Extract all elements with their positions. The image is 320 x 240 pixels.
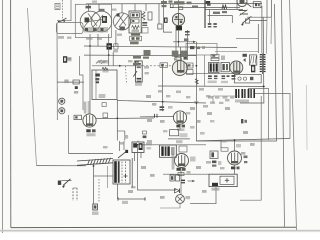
component marks in loop box	[95, 74, 105, 99]
wire x261.9 to T3	[261, 17, 263, 53]
transformer T5 output box	[113, 160, 130, 184]
label box LINE CORD	[55, 4, 60, 10]
component marks right of V9	[244, 156, 248, 164]
wire x137.5 down	[138, 145, 177, 190]
wire x124.8	[117, 131, 125, 141]
wire grid V6	[140, 116, 174, 118]
tube V1 inner grid marks	[85, 9, 108, 23]
component cluster right of V5	[243, 54, 257, 73]
wire x115.9	[115, 30, 117, 46]
volume control R5	[133, 61, 142, 82]
wire dashed line-cord	[61, 0, 63, 22]
box above T2	[186, 44, 217, 56]
component marks below V5	[232, 75, 236, 80]
capacitor C2 below T1	[130, 34, 142, 41]
label text top V3	[174, 1, 192, 4]
label text bottom mid	[128, 166, 207, 199]
wire K1 to T5	[135, 153, 142, 162]
label text top near V1	[92, 1, 117, 11]
wire left y82	[57, 81, 84, 83]
arrow bus y66	[119, 65, 196, 67]
wire top bus y9.4	[205, 8, 243, 10]
component box B7	[221, 62, 229, 71]
transformer T4 IF can bottom	[160, 145, 177, 157]
capacitor C3 right column	[146, 4, 152, 20]
switch S1 on-off	[58, 18, 67, 22]
label rotated text above V7	[84, 101, 90, 114]
capacitor mark right x241	[241, 119, 247, 123]
component box above V3	[170, 4, 183, 9]
tube V4 electrodes	[177, 61, 184, 73]
wire bus y55	[84, 54, 196, 57]
capacitor C6 x115	[114, 44, 118, 49]
wire x261 down	[240, 96, 261, 200]
resistor R1 column right of T1	[142, 12, 148, 34]
wire top bus y7.5	[170, 6, 240, 8]
label text mid right area	[199, 88, 230, 108]
transformer T2 IF hatched	[209, 62, 219, 72]
wire box y15.6	[208, 16, 233, 23]
resistor R10 right of V7	[102, 103, 108, 118]
component cluster below V8	[177, 157, 196, 171]
wire x162.7 long	[161, 66, 163, 103]
component marks below R11	[212, 161, 221, 167]
wire x221	[221, 140, 235, 151]
wire x68.6	[68, 115, 70, 154]
border frame bottom	[11, 226, 297, 228]
wire left long vertical	[28, 8, 37, 166]
tube V9 electrodes	[231, 153, 238, 164]
wire x90	[89, 34, 91, 114]
enclosure box V1 converter	[75, 4, 111, 37]
capacitor C1 trimmer above V1	[86, 6, 92, 9]
label rotated text left of V8	[172, 154, 175, 170]
scan left edge line	[2, 0, 4, 233]
wire T5 outer wall	[108, 158, 133, 188]
wire y203.5	[190, 187, 216, 204]
tube V2 IF amp envelope	[113, 13, 130, 30]
wire bus y140	[196, 139, 290, 141]
component blob below V1	[107, 43, 112, 49]
component box top right corner	[253, 2, 261, 8]
wire x108.7	[108, 34, 110, 66]
label text column mid	[146, 95, 230, 123]
label text top right of V3	[213, 11, 227, 14]
component cluster below V6	[176, 125, 185, 131]
capacitor C5 pair x210	[208, 9, 217, 27]
wire x98	[97, 34, 99, 46]
border frame right inner	[282, 0, 285, 228]
wire line-cord solid	[57, 0, 71, 21]
wire y17.2 right	[247, 16, 271, 18]
small box above V8	[179, 146, 187, 152]
wire bus y145	[140, 144, 206, 146]
label text row mid	[133, 56, 149, 63]
label S mark	[125, 135, 129, 139]
tube V9 envelope	[228, 151, 242, 165]
component box small x159	[158, 4, 162, 29]
capacitor bank electrolytics	[235, 89, 255, 103]
wire x204.5	[204, 55, 206, 86]
jack J2 phono	[59, 108, 65, 114]
border frame left	[10, 0, 12, 228]
label rotated diagonal text left	[96, 60, 106, 64]
tube V6 electrodes	[177, 112, 184, 123]
wire bus y73.7	[186, 73, 240, 75]
label text bottom left of T1	[130, 42, 151, 66]
speaker SP1 arrow	[58, 179, 72, 188]
wire x83	[80, 56, 84, 110]
switch S2 arrow	[241, 16, 251, 26]
wire tube top drops	[89, 4, 181, 60]
cable twisted hatch band	[77, 158, 113, 166]
component marks x142 left	[143, 131, 147, 138]
tube V7 envelope	[83, 114, 96, 127]
component dark left column	[63, 56, 72, 63]
scan bottom band	[0, 230, 320, 232]
wire bus y66	[92, 65, 142, 67]
field coil L1	[92, 163, 99, 215]
capacitor marks below B7	[221, 75, 230, 83]
vibrator box K1	[132, 142, 144, 153]
label text near pot	[128, 60, 149, 74]
wire left column x57	[56, 23, 58, 120]
wire V7 plate	[96, 117, 154, 120]
resistor R2 left of V3	[164, 18, 168, 23]
component box below V6	[170, 130, 188, 138]
wire x163 top	[164, 0, 173, 32]
wire V6 cathode stub	[179, 124, 181, 130]
tube V1 electrodes dark base	[84, 27, 109, 32]
component blobs top x207	[206, 1, 211, 6]
box loop antenna left	[92, 70, 117, 100]
capacitor C8 on bus y101	[160, 103, 165, 111]
wire bus y174	[163, 173, 209, 175]
wire drops above K1	[120, 141, 139, 152]
wire x205 dark	[204, 0, 206, 28]
wire x267 to T3	[266, 17, 269, 53]
tube V3 electrodes	[172, 13, 184, 25]
wire heater loop rounded	[56, 22, 83, 33]
wire x117.5 bottom	[117, 184, 119, 199]
rectifier box right	[234, 75, 261, 83]
component pair boxes left x186	[187, 63, 194, 75]
component cluster below V7	[86, 129, 95, 136]
capacitor C7 below volume	[135, 78, 142, 86]
wire x113	[112, 52, 114, 66]
wire AGC bus y46	[84, 46, 237, 48]
wire x268	[248, 88, 268, 140]
wire short x307 faint	[306, 85, 309, 150]
wire x275	[196, 4, 276, 141]
wire x176 grid	[175, 26, 177, 60]
resistor R4 IRC	[102, 67, 109, 72]
tube V6 envelope	[173, 111, 186, 124]
label text 220	[99, 60, 109, 63]
capacitor C4 with arrow	[173, 31, 196, 43]
wire y153 left	[69, 153, 113, 155]
resistor stack above T2	[211, 55, 225, 61]
tube V3 cathode blob	[176, 26, 182, 47]
tube V3 osc envelope	[172, 13, 184, 25]
wire V3 plate up	[178, 0, 180, 13]
wire x271.4	[270, 0, 272, 17]
label right of K1	[146, 143, 152, 150]
wire y20.6 right	[250, 20, 267, 22]
wire V9 cathode to bus	[234, 165, 236, 174]
label 502 under B5	[212, 188, 220, 191]
wire x187	[187, 30, 189, 60]
border frame right outer	[290, 0, 297, 230]
wire y96 box corner	[213, 96, 240, 103]
tube V7 electrodes	[86, 115, 93, 126]
capacitor row under T2	[208, 75, 218, 83]
label text near V9	[206, 140, 227, 169]
tube V4 envelope	[172, 61, 187, 76]
label text top left corner dense	[161, 1, 198, 8]
wire x271.4 down	[270, 17, 272, 44]
wire x263 B+	[240, 17, 264, 103]
component marks below V9	[231, 144, 241, 169]
label 26	[186, 196, 191, 199]
wire bus y86.4	[158, 85, 265, 87]
label rows under T2 B7	[158, 90, 234, 104]
capacitor arrows bottom phase	[181, 180, 195, 184]
resistor R11 mid right	[210, 148, 228, 159]
grid stopper marks left of V6	[155, 114, 158, 118]
tube V1 dual triode envelope B	[84, 11, 112, 32]
speckle labels V6 row	[163, 106, 214, 135]
marks inside box above T2	[190, 46, 205, 49]
resistor R6 stack above V4	[175, 54, 187, 60]
transformer T1 windings	[131, 13, 140, 32]
wire top bus y4	[86, 3, 262, 5]
wire y208	[160, 203, 180, 208]
tube V12 detector top right partial	[237, 0, 247, 7]
label text misc top left	[64, 57, 78, 93]
resistor R7 hatch zigzag	[195, 78, 198, 84]
resistor R9 left of V7	[74, 115, 82, 119]
speaker SP1 voice coil dashed	[73, 188, 77, 201]
wire y51.5 right	[215, 51, 258, 53]
wire y176	[94, 175, 114, 177]
tube V2 electrodes	[115, 13, 128, 30]
wire diagonal V12	[245, 3, 251, 7]
wire x196	[195, 42, 197, 141]
wire x237 top	[236, 0, 238, 9]
label text near T4 V10	[103, 140, 152, 188]
resistor pair bottom phase	[170, 175, 180, 181]
wire diagonal into K1	[118, 150, 128, 158]
resistor R3 hatched top right	[222, 5, 227, 9]
tube V1 dual triode envelope A	[80, 11, 101, 32]
label text under V1 V2	[86, 34, 122, 53]
power pack box B5	[209, 174, 237, 186]
wire dashed AVC	[126, 66, 127, 84]
component marks left of V4	[160, 63, 168, 68]
wire y139	[168, 139, 190, 143]
tube V8 electrodes	[178, 155, 185, 166]
wire rect right mid	[255, 94, 290, 139]
switch S2 tone bars	[239, 10, 248, 16]
wire bus y101	[117, 101, 206, 104]
wire y199 ticks	[118, 197, 145, 204]
tube V8 envelope	[175, 154, 189, 168]
tube V5 envelope	[230, 61, 243, 74]
label text below switch	[58, 36, 72, 39]
jack J1 phono	[59, 98, 65, 104]
tube V11 small envelope	[176, 195, 185, 204]
wire x267	[266, 0, 268, 17]
wire x258 down	[257, 24, 259, 53]
diode D1 bottom	[175, 189, 180, 194]
wire y38.6 right	[236, 38, 258, 40]
resistor R8 left	[73, 80, 79, 89]
transformer T3 output windings right	[260, 54, 266, 75]
label text osc area	[172, 38, 189, 57]
wire x117 down	[116, 100, 118, 141]
resistor chain below V8	[178, 168, 191, 196]
label text right mid	[241, 131, 255, 155]
wire y166 left	[37, 165, 87, 167]
wire x261.9	[261, 6, 263, 17]
transformer T1 IF can box	[129, 11, 141, 33]
